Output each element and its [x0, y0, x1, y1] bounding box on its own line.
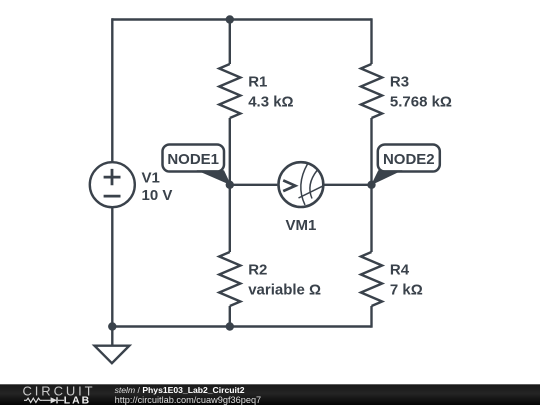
wire node2 down lead: [370, 185, 372, 252]
voltmeter VM1 circle: [279, 162, 324, 207]
wire left vertical (bottom of V1): [111, 208, 113, 327]
svg-text:4.3 kΩ: 4.3 kΩ: [248, 93, 293, 110]
resistor R1: [219, 64, 240, 118]
svg-text:stelm / Phys1E03_Lab2_Circuit2: stelm / Phys1E03_Lab2_Circuit2: [115, 385, 245, 395]
svg-text:R4: R4: [390, 262, 410, 279]
ground symbol: [95, 346, 130, 364]
VM1 gauge arc left: [301, 164, 308, 205]
wire R4 to bottom: [370, 306, 372, 328]
svg-text:NODE2: NODE2: [383, 151, 435, 168]
V1 minus sign: [104, 195, 121, 198]
NODE1 pointer: [197, 170, 232, 185]
junction dot bottom left: [108, 322, 116, 330]
wire R1 to node1: [229, 118, 231, 185]
wire top horizontal: [112, 18, 372, 20]
VM1 needle: [299, 185, 325, 198]
svg-text:10 V: 10 V: [142, 187, 173, 204]
wire ground stem: [111, 327, 113, 346]
wire right column top lead: [370, 18, 372, 64]
resistor R2: [219, 252, 240, 306]
svg-text:V1: V1: [142, 170, 160, 187]
wire R3 to node2: [370, 118, 372, 185]
V1 plus sign: [104, 169, 121, 185]
svg-text:5.768 kΩ: 5.768 kΩ: [390, 93, 452, 110]
resistor R3: [361, 64, 382, 118]
NODE2 pointer: [371, 170, 403, 185]
footer bar: [0, 384, 540, 405]
junction dot top: [226, 15, 234, 23]
resistor R4: [361, 252, 382, 306]
VM1 gauge arc right: [310, 171, 317, 199]
svg-text:R2: R2: [248, 262, 267, 279]
wire voltmeter to node2: [324, 184, 371, 186]
wire node1 to voltmeter: [230, 184, 278, 186]
svg-text:variable Ω: variable Ω: [248, 281, 321, 298]
wire middle column top lead: [229, 20, 231, 65]
NODE1 flag box: [163, 145, 225, 172]
wire R2 to bottom: [229, 306, 231, 327]
VM1 chevron: [283, 180, 295, 191]
logo resistor zigzag: [24, 398, 43, 402]
NODE2 flag box: [378, 145, 440, 172]
voltage source V1 circle: [90, 162, 135, 207]
wire node1 down lead: [229, 185, 231, 252]
junction dot bottom middle: [226, 322, 234, 330]
junction dot node1: [226, 181, 234, 189]
logo diode: [43, 397, 64, 403]
svg-text:http://circuitlab.com/cuaw9gf3: http://circuitlab.com/cuaw9gf36peq7: [115, 395, 262, 405]
svg-text:R1: R1: [248, 74, 267, 91]
wire left vertical (top of V1): [111, 18, 113, 161]
svg-text:NODE1: NODE1: [167, 151, 219, 168]
wire bottom horizontal: [112, 325, 371, 327]
junction dot node2: [367, 181, 375, 189]
svg-text:VM1: VM1: [285, 217, 316, 234]
svg-text:LAB: LAB: [64, 396, 91, 405]
svg-text:7 kΩ: 7 kΩ: [390, 281, 423, 298]
svg-text:R3: R3: [390, 74, 409, 91]
